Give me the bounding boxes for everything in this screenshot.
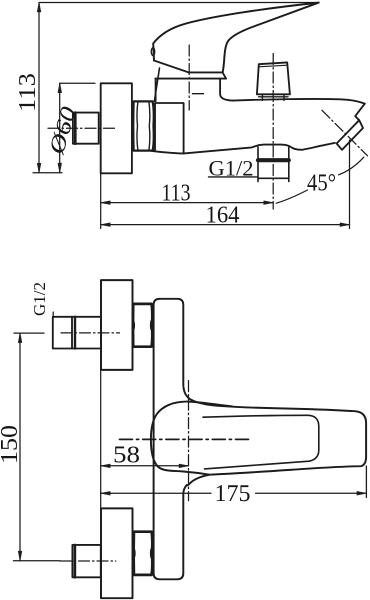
dimension 113 horizontal arrows (101, 201, 274, 205)
diverter knob (257, 62, 290, 94)
diverter center line (272, 54, 274, 210)
spout tip extension line (349, 140, 351, 229)
shower outlet thread band (258, 158, 289, 162)
bottom wall flange (plan view) (101, 508, 133, 598)
body center extension line (188, 381, 190, 501)
valve lower column (155, 103, 184, 153)
inlet center line (side view) (48, 127, 115, 129)
mixer body (plan view) (160, 299, 192, 400)
45 degree leader arc (276, 157, 364, 203)
dimension 150 arrows (18, 333, 22, 560)
dimension 58 arrows (101, 464, 189, 468)
svg-text:45°: 45° (307, 171, 336, 197)
top connector divider (71, 317, 73, 349)
svg-text:G1/2: G1/2 (30, 282, 49, 316)
body right edge and corner to spout (220, 79, 233, 101)
dimension D60 line (59, 83, 61, 172)
svg-text:113: 113 (15, 73, 41, 112)
bonnet ring line (155, 78, 226, 80)
top wall connector (plan view) (53, 317, 101, 349)
bottom connector thread edge (74, 545, 77, 577)
top connector thread edge (74, 317, 76, 349)
dimension 113 horizontal line (101, 202, 274, 204)
dimension D60 top tick (60, 82, 95, 84)
top inlet center line (plan view) (61, 332, 120, 334)
dimension 150 line (19, 333, 21, 560)
dimension 58 line (101, 465, 189, 467)
spout tip extension (plan view) (365, 466, 367, 498)
dimension 113 vertical bottom tick (33, 172, 62, 174)
dimension 164 arrows (101, 223, 350, 227)
G1/2 leader line (52, 312, 54, 318)
bottom hex nut waist nubs (134, 549, 151, 558)
diverter knob bevel line (259, 65, 288, 67)
bottom wall connector (plan view) (72, 545, 100, 577)
G1/2 underline (209, 176, 258, 178)
spout top edge (233, 99, 365, 104)
aerator shoulder notch (355, 104, 365, 121)
wall connector (side view) (73, 113, 99, 144)
hex nut (side view) (133, 101, 154, 150)
lever handle outline (153, 3, 319, 73)
spout inner contour (203, 415, 319, 469)
cap top edge (188, 72, 226, 78)
center mark dash (193, 93, 204, 95)
dimension 175 arrows (101, 491, 367, 495)
45 degree center line (322, 110, 368, 156)
dimension 164 line (101, 224, 350, 226)
spout outline (plan view) (187, 400, 367, 485)
wall flange (side view) (101, 83, 132, 173)
valve center line (188, 45, 190, 110)
dimension 113 vertical arrows (37, 3, 41, 173)
top inlet extension tick (14, 332, 44, 334)
spout underside (152, 143, 335, 154)
bottom inlet center line dashdot (60, 560, 116, 562)
mixer body left and bottom (154, 299, 187, 580)
svg-text:58: 58 (113, 443, 140, 469)
bottom inlet center line (13, 560, 60, 562)
cap left slant edge (154, 68, 159, 101)
top hex nut waist nubs (133, 321, 151, 330)
handle nose cap (151, 48, 154, 56)
spout center line (plan view) (120, 438, 250, 440)
svg-text:175: 175 (214, 481, 250, 507)
aerator housing (337, 120, 363, 150)
dimension 175 line (101, 492, 367, 494)
top wall flange (plan view) (101, 280, 133, 370)
wall extension line (plan view) (100, 370, 102, 509)
handle dome (plan view) (151, 402, 232, 475)
svg-text:113: 113 (162, 181, 191, 207)
hex nut inner faces (side view) (137, 102, 150, 151)
dimension D60 arrows (58, 83, 62, 172)
top hex nut (plan view) (133, 304, 152, 347)
svg-text:164: 164 (206, 203, 240, 229)
bottom hex nut (plan view) (134, 532, 153, 575)
dimension 113 vertical line (38, 3, 40, 173)
wall connector thick thread edge (74, 113, 77, 144)
body left edge (155, 79, 157, 102)
top extension line (handle tip level) (39, 2, 316, 4)
handle underside slant (154, 61, 188, 73)
wall extension line (side view) (100, 173, 102, 228)
diverter knob neck (259, 94, 289, 100)
svg-text:150: 150 (0, 425, 23, 464)
shower outlet body (258, 147, 289, 182)
